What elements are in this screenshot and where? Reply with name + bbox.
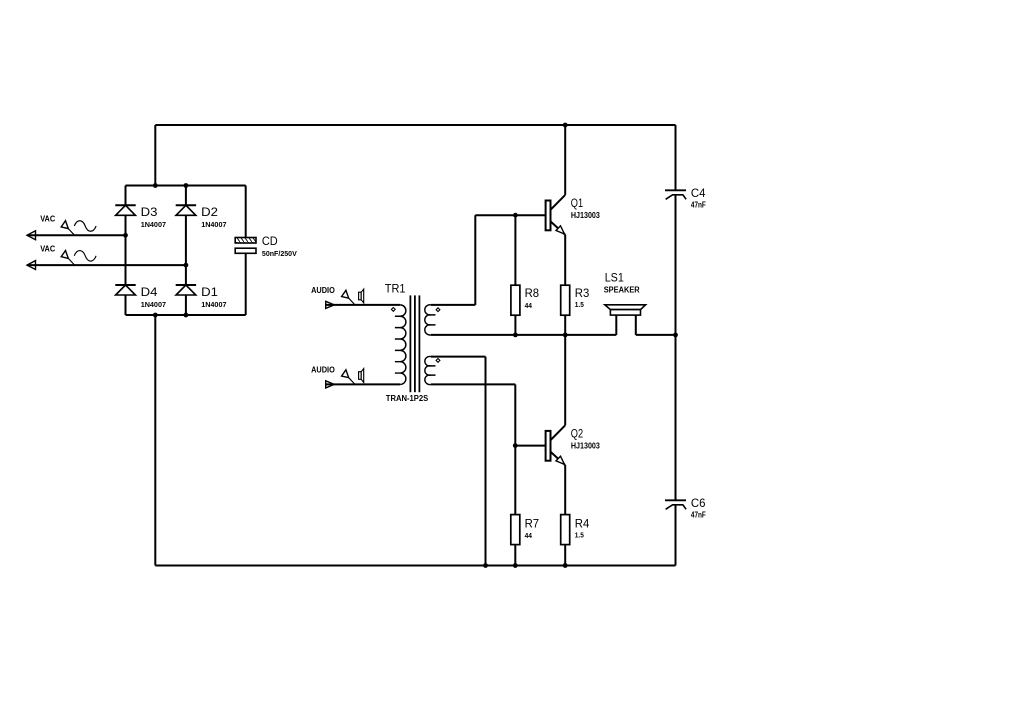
svg-text:TRAN-1P2S: TRAN-1P2S [386,394,429,403]
svg-text:1.5: 1.5 [575,300,584,309]
svg-text:HJ13003: HJ13003 [571,211,600,220]
svg-text:TR1: TR1 [385,282,406,296]
svg-text:VAC: VAC [40,245,55,254]
svg-text:1N4007: 1N4007 [201,300,226,309]
svg-text:CD: CD [262,234,278,248]
svg-text:47nF: 47nF [691,510,706,519]
svg-text:47nF: 47nF [691,200,706,209]
svg-text:1.5: 1.5 [575,530,584,539]
svg-text:Q2: Q2 [571,426,584,440]
svg-text:LS1: LS1 [605,271,624,285]
svg-text:D2: D2 [201,205,218,219]
svg-text:HJ13003: HJ13003 [571,441,600,450]
svg-text:1N4007: 1N4007 [141,300,166,309]
svg-text:44: 44 [525,301,533,310]
svg-text:44: 44 [525,531,533,540]
svg-text:R8: R8 [525,286,540,300]
svg-text:C4: C4 [691,186,706,200]
svg-text:SPEAKER: SPEAKER [604,285,640,294]
svg-text:C6: C6 [691,496,706,510]
svg-text:1N4007: 1N4007 [201,220,226,229]
svg-text:AUDIO: AUDIO [311,286,335,295]
svg-text:VAC: VAC [40,215,55,224]
svg-text:D1: D1 [201,285,218,299]
svg-text:50nF/250V: 50nF/250V [262,249,297,258]
svg-text:R4: R4 [575,516,590,530]
svg-text:AUDIO: AUDIO [311,365,335,374]
svg-text:D3: D3 [141,205,158,219]
svg-text:D4: D4 [141,285,158,299]
svg-text:Q1: Q1 [571,196,584,210]
svg-text:R3: R3 [575,286,590,300]
svg-text:1N4007: 1N4007 [141,220,166,229]
svg-text:R7: R7 [525,516,540,530]
